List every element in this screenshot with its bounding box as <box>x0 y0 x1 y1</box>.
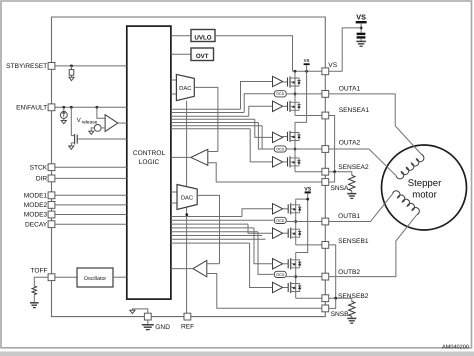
pin SNSB <box>322 305 349 318</box>
pin TOFF <box>30 268 54 281</box>
pin SENSEB2 <box>322 293 369 302</box>
VS supply symbol <box>356 12 367 33</box>
wire SENSEA1 <box>295 115 322 117</box>
gate driver B1 <box>273 204 283 214</box>
wire VS rail B <box>296 198 309 253</box>
svg-text:REF: REF <box>181 324 194 331</box>
pin GND <box>144 313 170 331</box>
figure number <box>442 345 469 351</box>
svg-text:SENSEB2: SENSEB2 <box>338 293 369 300</box>
stepper motor body <box>382 145 467 230</box>
pin STBY\RESET <box>6 63 55 71</box>
wire MODE3 <box>55 214 127 216</box>
svg-text:OCD: OCD <box>276 219 285 223</box>
wire UVLO to VS <box>215 36 293 72</box>
voltage source V_release <box>89 125 105 135</box>
pin SENSEA1 <box>322 107 370 119</box>
gate driver B3 <box>273 259 283 269</box>
wire REF rail <box>186 101 188 314</box>
svg-text:UVLO: UVLO <box>194 34 211 41</box>
fault pull-down transistor Q1 <box>69 107 127 149</box>
gate driver A3 <box>273 132 283 142</box>
UVLO block <box>171 30 215 42</box>
svg-text:OCD: OCD <box>276 92 285 96</box>
svg-text:SENSEB1: SENSEB1 <box>338 238 369 245</box>
wire STBY\RESET <box>55 65 127 67</box>
pin VS <box>322 62 338 75</box>
control logic block <box>127 26 171 299</box>
OCD B1 <box>274 217 286 223</box>
oscillator block <box>77 268 127 287</box>
svg-text:STCK: STCK <box>30 164 48 171</box>
pin MODE3 <box>24 211 55 219</box>
gate driver B4 <box>273 282 283 292</box>
wire OUTA2 to coil A <box>329 149 397 176</box>
svg-text:EN\FAULT: EN\FAULT <box>16 105 47 112</box>
wire OUTA2 node <box>286 148 322 150</box>
VS tap marker phase B <box>304 187 311 200</box>
svg-text:GND: GND <box>155 324 170 331</box>
wire bundle phase A <box>171 109 262 129</box>
transistor M7 (B high2) <box>283 256 301 272</box>
svg-text:motor: motor <box>412 190 437 201</box>
pin DIR <box>36 175 55 183</box>
wire VS rail A <box>295 71 307 122</box>
wire DACB out <box>197 195 219 263</box>
transistor M4 (A low2) <box>282 154 300 170</box>
svg-text:DIR: DIR <box>36 176 48 183</box>
svg-text:OUTA1: OUTA1 <box>339 85 361 92</box>
svg-text:VS: VS <box>304 58 310 63</box>
comparator B <box>171 260 322 308</box>
OVT block <box>171 48 214 61</box>
pin MODE1 <box>24 192 55 200</box>
wire bridge A1 column <box>294 71 297 115</box>
pin OUTB2 <box>322 269 361 280</box>
svg-text:VS: VS <box>328 62 337 69</box>
wire OUTB2 to coil B <box>329 215 417 277</box>
wire SENSEB1 <box>296 244 322 246</box>
substrate arrow at GND <box>130 309 148 314</box>
transistor M3 (A high2) <box>282 129 300 145</box>
transistor M1 (A high1) <box>282 74 300 90</box>
stepper motor label <box>408 178 442 200</box>
wire DIR <box>55 177 127 179</box>
svg-text:SNSB: SNSB <box>331 311 350 318</box>
gate driver B2 <box>273 228 283 238</box>
DAC U_DACB <box>171 185 197 210</box>
pin DECAY <box>25 221 55 229</box>
ground at R_SNSA <box>347 194 356 199</box>
gate driver A4 <box>273 157 283 167</box>
pin OUTA2 <box>322 139 361 152</box>
wire risers phase B <box>242 209 274 288</box>
wire OUTA1 node <box>286 93 322 95</box>
pin MODE2 <box>24 202 55 210</box>
svg-text:MODE1: MODE1 <box>24 193 48 200</box>
wire TOFF <box>55 276 77 278</box>
wire SENSEA2 <box>295 171 322 173</box>
svg-text:VS: VS <box>356 12 366 21</box>
wire STCK <box>55 166 127 168</box>
svg-text:MODE3: MODE3 <box>24 212 48 219</box>
wire SENSEB2 to RsenseB <box>329 297 352 302</box>
wire SNSB tie <box>329 298 336 308</box>
wire bridge A2 column <box>294 122 297 171</box>
wire bridge B1 column <box>294 199 297 245</box>
pin SNSA <box>322 179 349 192</box>
ground at GND pin <box>142 320 154 330</box>
svg-text:OUTA2: OUTA2 <box>339 139 361 146</box>
svg-text:SENSEA1: SENSEA1 <box>339 107 370 114</box>
pin SENSEA2 <box>322 164 369 175</box>
wire OUTB1 node <box>286 221 322 223</box>
wire MODE2 <box>55 204 127 206</box>
svg-text:STBY\RESET: STBY\RESET <box>6 63 47 70</box>
comparator A <box>171 149 322 182</box>
ground at R_TOFF <box>30 303 39 308</box>
svg-text:OCD: OCD <box>276 273 285 277</box>
svg-text:TOFF: TOFF <box>30 268 47 275</box>
current source I_pu <box>60 107 67 124</box>
resistor R_SNSB <box>349 301 355 318</box>
svg-text:DAC: DAC <box>179 85 191 92</box>
wire SENSEA2 to RsenseA <box>329 170 352 175</box>
transistor M2 (A low1) <box>282 98 300 114</box>
pin OUTB1 <box>322 213 361 225</box>
svg-text:DAC: DAC <box>181 195 193 202</box>
VS tap marker phase A <box>304 58 310 72</box>
IC package outline U1 <box>52 17 326 317</box>
wire SENSEA1 tie <box>329 116 335 172</box>
pin REF <box>181 313 194 330</box>
svg-text:Stepper: Stepper <box>408 178 442 189</box>
OCD B2 <box>274 271 286 277</box>
node dots on EN\FAULT wire <box>62 106 98 109</box>
pin SENSEB1 <box>322 238 369 248</box>
svg-text:LOGIC: LOGIC <box>139 159 160 166</box>
resistor R_SNSA <box>349 175 355 193</box>
coil B <box>393 191 420 215</box>
svg-text:OVT: OVT <box>196 53 209 60</box>
svg-text:OUTB1: OUTB1 <box>338 213 360 220</box>
pin OUTA1 <box>322 85 361 97</box>
capacitor C_VS <box>357 34 366 41</box>
wire OUTB2 node <box>286 276 322 278</box>
wire DECAY <box>55 223 127 225</box>
svg-text:OUTB2: OUTB2 <box>338 269 360 276</box>
ground at C_VS <box>356 41 366 46</box>
svg-text:OCD: OCD <box>276 147 285 151</box>
gate driver A2 <box>273 101 283 111</box>
wire DACA out <box>194 87 218 151</box>
coil A <box>396 154 424 178</box>
svg-text:Oscillator: Oscillator <box>84 276 107 282</box>
svg-text:release: release <box>82 120 98 126</box>
svg-text:CONTROL: CONTROL <box>133 150 166 157</box>
wire VS line to bridge A <box>293 70 322 73</box>
transistor M8 (B low2) <box>283 280 301 296</box>
pin STCK <box>30 164 55 172</box>
wire bridge B2 column <box>294 253 297 299</box>
svg-text:DECAY: DECAY <box>25 221 48 228</box>
wire SNSA tie <box>329 172 335 182</box>
label V_release <box>77 117 98 125</box>
wire SENSEB1 tie <box>329 245 336 298</box>
wire bundle phase B <box>171 217 274 244</box>
OCD A2 <box>274 146 286 152</box>
clamp diode on STBY\RESET <box>69 65 74 81</box>
wire SENSEB2 <box>296 297 322 299</box>
wire VS to pin <box>329 28 361 71</box>
wire risers phase A <box>241 82 275 162</box>
wire MODE1 <box>55 194 127 196</box>
wire OUTA1 to coil A <box>329 94 422 154</box>
svg-text:SNSA: SNSA <box>331 185 350 192</box>
svg-text:SENSEA2: SENSEA2 <box>338 164 369 171</box>
OCD A1 <box>274 91 286 97</box>
svg-text:AM040200: AM040200 <box>442 345 469 351</box>
control logic label <box>133 150 166 166</box>
pin EN\FAULT <box>16 104 55 112</box>
resistor R_TOFF <box>32 277 48 302</box>
svg-text:MODE2: MODE2 <box>24 202 48 209</box>
gate driver A1 <box>273 76 283 86</box>
DAC U_DACA <box>171 74 194 100</box>
wire EN\FAULT <box>55 106 127 108</box>
ground at R_SNSB <box>347 318 356 323</box>
transistor M6 (B low1) <box>283 225 301 241</box>
transistor M5 (B high1) <box>283 201 301 217</box>
node REF-DACB <box>185 213 188 216</box>
comparator EN (V_release) <box>97 107 127 131</box>
wire OUTB1 to coil B <box>329 194 393 222</box>
